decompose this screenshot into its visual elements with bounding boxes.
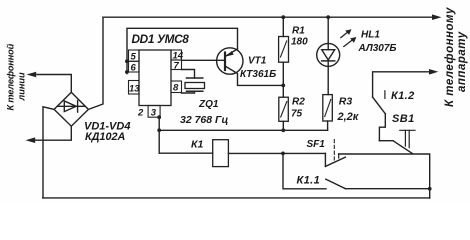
junction dot R2 bottom xyxy=(281,128,285,132)
junction dot K1 branch xyxy=(281,152,285,156)
diode symbol inside bridge xyxy=(58,105,86,107)
pin 8 cell xyxy=(171,81,182,93)
button SB1 left lead xyxy=(379,140,393,142)
diode bridge VD1-VD4 xyxy=(54,92,88,126)
svg-text:3: 3 xyxy=(151,108,157,119)
pin 6 cell xyxy=(129,61,140,72)
svg-text:АЛ307Б: АЛ307Б xyxy=(358,43,397,54)
resistor R1 leads xyxy=(282,17,284,85)
wire SF1 right long segment to SB1 corner xyxy=(339,154,430,198)
resistor R3 power slash xyxy=(325,100,331,117)
LED HL1 circle xyxy=(317,43,340,66)
contact K1.2 fixed tick xyxy=(384,91,386,99)
wire K1 coil left xyxy=(159,152,213,154)
svg-text:К1.1: К1.1 xyxy=(297,175,321,187)
svg-text:SF1: SF1 xyxy=(307,139,326,150)
junction dot pin3 xyxy=(157,115,161,119)
svg-text:2,2к: 2,2к xyxy=(337,111,360,123)
contact SF1 pivot stub xyxy=(324,153,326,166)
arrowhead lower-left xyxy=(26,137,36,143)
svg-text:180: 180 xyxy=(291,37,308,48)
svg-text:32 768 Гц: 32 768 Гц xyxy=(180,114,228,126)
svg-text:К телефонной: К телефонной xyxy=(6,43,16,110)
pin 6 stub xyxy=(127,71,129,73)
LED HL1 cathode bar xyxy=(322,60,335,62)
crystal ZQ1 body xyxy=(185,83,205,89)
wire pins 5,6 bus to emitter of VT1 xyxy=(127,28,238,73)
op IC DD1 body xyxy=(139,50,171,106)
pin 14 cell xyxy=(171,50,182,60)
transistor VT1 circle xyxy=(217,48,243,74)
resistor R1 body xyxy=(279,37,289,63)
button SB1 blade xyxy=(393,141,413,154)
svg-text:К1: К1 xyxy=(191,139,203,151)
svg-text:13: 13 xyxy=(129,84,140,95)
LED arrowhead 2 xyxy=(350,37,356,43)
LED arrowhead 1 xyxy=(345,29,351,35)
wire bottom rail xyxy=(43,197,430,199)
button SB1 actuator T-bar xyxy=(400,129,415,131)
LED emission arrow 2 xyxy=(344,40,353,47)
wire K1.2 branch top to lower-right arrow xyxy=(373,72,430,97)
junction dot mid rail xyxy=(157,128,161,132)
transistor VT1 collector xyxy=(225,66,283,85)
svg-text:7: 7 xyxy=(174,61,180,72)
LED HL1 triangle xyxy=(322,50,335,60)
transistor VT1 emitter with arrow xyxy=(225,49,238,57)
contact K1.2 blade xyxy=(373,97,386,114)
pin 3 cell xyxy=(148,106,160,118)
wire bridge bottom vertex to lower-left arrow xyxy=(36,126,72,140)
svg-text:SB1: SB1 xyxy=(392,113,415,125)
junction dot R1 top xyxy=(281,15,285,19)
resistor R2 body xyxy=(279,97,289,121)
resistor R3 body xyxy=(323,95,333,121)
resistor R1 power slash xyxy=(281,41,287,57)
wire left vertical from top rail to bridge xyxy=(88,17,103,109)
svg-text:VT1: VT1 xyxy=(248,56,267,67)
svg-text:R3: R3 xyxy=(339,96,353,108)
wire K1.1 branch drop xyxy=(283,153,326,188)
svg-text:HL1: HL1 xyxy=(361,30,380,41)
svg-text:линии: линии xyxy=(17,72,27,101)
emitter arrowhead xyxy=(225,51,233,57)
svg-text:75: 75 xyxy=(291,109,303,120)
contact K1.1 blade xyxy=(326,179,346,189)
contact SF1 blade xyxy=(325,157,345,166)
LED HL1 bottom lead / R3 top xyxy=(327,61,329,95)
svg-text:DD1 УМС8: DD1 УМС8 xyxy=(132,32,190,46)
svg-text:R1: R1 xyxy=(292,26,305,37)
svg-text:К телефонному: К телефонному xyxy=(444,7,456,107)
wire pin 8 lead to crystal bottom plate xyxy=(182,91,195,93)
relay coil K1 xyxy=(213,140,229,167)
wire pin 7 lead to crystal top plate xyxy=(182,70,195,79)
contact SF1 fixed tick xyxy=(338,154,340,158)
wire pin 3 drop xyxy=(158,117,160,153)
wire bridge left vertex to long left vertical xyxy=(43,107,54,198)
svg-text:2: 2 xyxy=(137,108,144,119)
pin 7 cell xyxy=(171,60,182,70)
crystal ZQ1 plates xyxy=(187,78,203,91)
junction dot pins5-6 a xyxy=(125,59,129,63)
svg-text:ZQ1: ZQ1 xyxy=(198,99,219,110)
wire top rail xyxy=(103,16,433,18)
pin 13 cell xyxy=(129,81,140,95)
svg-text:8: 8 xyxy=(173,83,179,94)
arrowhead top-right xyxy=(432,14,442,20)
junction dot K1.1 right xyxy=(428,187,432,191)
arrowhead upper-left xyxy=(27,72,37,78)
pin 5 cell xyxy=(129,50,140,61)
resistor R2 leads xyxy=(282,85,284,130)
svg-text:R2: R2 xyxy=(292,97,305,108)
LED HL1 top lead xyxy=(327,17,329,50)
wire K1.1 right segment xyxy=(346,188,430,190)
transistor VT1 base bar xyxy=(224,53,226,71)
button SB1 actuator stems xyxy=(405,130,409,147)
resistor R3 bottom lead xyxy=(327,121,329,130)
resistor R2 power slash xyxy=(281,102,287,118)
junction dot collector R1 R2 xyxy=(281,84,285,88)
wire pin 14 lead to base xyxy=(182,59,226,61)
svg-text:5: 5 xyxy=(131,52,137,63)
junction dot pins5-6 b xyxy=(125,70,129,74)
svg-text:КД102А: КД102А xyxy=(85,131,125,143)
svg-text:К1.2: К1.2 xyxy=(391,90,415,102)
junction dot LED top xyxy=(326,15,330,19)
LED emission arrow 1 xyxy=(341,32,349,38)
arrowhead lower-right xyxy=(429,69,438,75)
pin 5 stub xyxy=(127,60,129,62)
wire K1.2 to SB1 jog xyxy=(379,114,385,141)
svg-text:аппарату: аппарату xyxy=(456,31,468,92)
wire bridge top vertex to upper-left arrow xyxy=(37,75,71,93)
wire K1 coil right to SF1 xyxy=(228,152,325,154)
SF1 actuator dashed line xyxy=(333,140,335,161)
wire mid rail xyxy=(159,129,327,131)
svg-text:6: 6 xyxy=(131,63,137,74)
svg-text:КТ361Б: КТ361Б xyxy=(240,69,276,80)
